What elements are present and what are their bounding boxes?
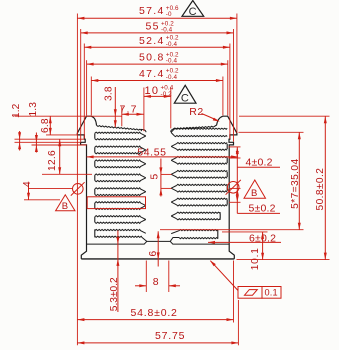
dimension 1.2 line (18, 131, 21, 151)
extension line left wing tip / overall (76, 14, 78, 346)
svg-text:5: 5 (150, 174, 161, 180)
svg-text:3.8: 3.8 (103, 86, 114, 101)
dimension 12.6 text (47, 150, 58, 171)
svg-text:6.8: 6.8 (40, 118, 51, 133)
datum triangle B right (244, 180, 266, 199)
dimension 5*7=35.04 line (298, 132, 301, 229)
base top surface with centre boss (87, 241, 230, 244)
extension line wing top right (239, 115, 330, 117)
svg-text:-0.4: -0.4 (166, 58, 178, 65)
svg-text:C: C (189, 6, 197, 18)
svg-text:54.55: 54.55 (137, 147, 166, 159)
left wing and left wall outer edge (77, 116, 91, 259)
extension line y142 (15, 141, 81, 143)
extension line channel right (170, 88, 172, 129)
right top thick fin (171, 128, 227, 136)
extension line left tab tip (80, 29, 82, 142)
dimension 52.4 line (84, 46, 230, 49)
extension line bottom right (237, 259, 330, 261)
dimension 6.8 line (49, 116, 52, 135)
dimension 10.1 line (261, 232, 264, 260)
svg-text:5.3±0.2: 5.3±0.2 (109, 277, 120, 311)
right fin 7 (171, 212, 220, 220)
right fin 2 (171, 143, 227, 151)
dimension 57.75 text (155, 330, 185, 342)
svg-text:57.4: 57.4 (139, 5, 165, 17)
left fin 3 (95, 160, 146, 168)
dimension 4±0.2 text (246, 156, 273, 168)
svg-text:1.2: 1.2 (11, 103, 22, 118)
datum triangle C middle (174, 85, 196, 104)
svg-text:C: C (181, 93, 189, 105)
dimension 57.4 +0.6/-0 text (139, 5, 179, 18)
dimension 8 line (135, 284, 180, 287)
dimension 4±0.2 shelf (237, 166, 280, 168)
dimension 1.3 line (35, 133, 38, 153)
right bottom fin (170, 230, 218, 242)
detail box on left fin (87, 197, 145, 209)
extension line y145 (32, 144, 87, 146)
dimension 6±0.2 line (208, 241, 281, 244)
svg-text:R2: R2 (189, 106, 204, 118)
dimension 7.7 line (122, 113, 144, 116)
dimension 54.55 text (137, 147, 166, 159)
svg-text:B: B (62, 201, 68, 212)
svg-text:1.3: 1.3 (28, 102, 39, 117)
extension line left wing top inner (90, 77, 92, 116)
svg-text:57.75: 57.75 (155, 330, 185, 342)
extension line right foot (233, 261, 235, 323)
dimension 6±0.2 text (249, 232, 276, 244)
dimension 5 line (159, 159, 162, 197)
dimension 7.7 text (120, 104, 138, 116)
dimension 50.8 line (87, 63, 228, 66)
leader to datum circle (29, 188, 73, 190)
dimension 6 text (148, 251, 159, 257)
dimension 6.8 text (40, 118, 51, 133)
svg-text:12.6: 12.6 (47, 150, 58, 171)
dimension 1.3 text (28, 102, 39, 117)
extension line 7.7 left (121, 107, 123, 127)
svg-text:B: B (251, 188, 257, 199)
dimension 5±0.2 text (249, 203, 276, 215)
dimension 50.8±0.2 line (324, 116, 327, 259)
extension line y139 (15, 138, 85, 140)
dimension 50.8 text (139, 51, 179, 64)
svg-text:0.1: 0.1 (265, 288, 278, 298)
left fin 4 (95, 174, 146, 182)
left fin 6 (95, 202, 146, 210)
dimension 5.3±0.2 text (109, 277, 120, 311)
datum triangle B left (56, 195, 75, 212)
left fin 7 (95, 216, 146, 224)
svg-text:54.8±0.2: 54.8±0.2 (131, 307, 178, 319)
left fin 5 (95, 188, 146, 196)
extension line left notch (83, 44, 85, 139)
svg-text:-0.4: -0.4 (166, 74, 178, 81)
svg-text:5*7=35.04: 5*7=35.04 (290, 158, 301, 208)
svg-text:52.4: 52.4 (139, 35, 165, 47)
dimension 10 +0.4/-0.2 line (144, 95, 171, 98)
extension line ledge (46, 134, 77, 136)
dimension 5 text (150, 174, 161, 180)
dimension 54.55 line (87, 155, 239, 158)
datum target circle right (226, 180, 241, 195)
left fin 2 (95, 146, 146, 154)
extension tick y174 (161, 173, 172, 175)
dimension 10.1 text (250, 247, 261, 270)
svg-text:55: 55 (146, 21, 160, 33)
extension line right wing top inner (222, 77, 224, 116)
svg-text:10: 10 (145, 85, 160, 97)
svg-text:-0.4: -0.4 (161, 27, 173, 34)
dimension 3.8 text (103, 86, 114, 101)
svg-text:6: 6 (148, 251, 159, 257)
extension line y200 (24, 199, 60, 201)
dimension 55 text (146, 20, 175, 33)
dimension 50.8±0.2 text (315, 168, 326, 211)
right fin 6 (171, 198, 227, 206)
flatness leader (210, 260, 238, 290)
extension line right wall (227, 60, 229, 115)
dimension 4 line (27, 183, 30, 200)
extension line wing top left (15, 115, 122, 117)
dimension 57.75 line (77, 341, 238, 344)
extension line right wing tip (236, 14, 238, 134)
dimension 1.2 text (11, 103, 22, 118)
svg-text:-0: -0 (166, 11, 172, 18)
dimension 12.6 line (58, 139, 61, 174)
extension tick y188 (161, 187, 172, 189)
right fin 5 (171, 184, 227, 192)
right wing inner fillet and top surface (171, 116, 223, 132)
datum target circle left (71, 182, 85, 195)
extension line right tab tip (233, 29, 235, 142)
extension line y174 (42, 173, 92, 175)
dimension 54.8±0.2 line (77, 318, 233, 321)
dimension 54.8±0.2 text (131, 307, 178, 319)
extension line y231.9 (222, 231, 268, 233)
extension line y229.7 (160, 229, 304, 231)
dimension 55 line (81, 31, 234, 34)
extension line boss left (145, 261, 147, 293)
svg-text:7.7: 7.7 (120, 104, 138, 116)
left wing inner fillet and top surface (91, 116, 146, 132)
left fin 1 (95, 132, 146, 140)
right wing and right wall outer edge (223, 116, 237, 259)
dimension 4 text (22, 181, 33, 187)
svg-text:-0.4: -0.4 (166, 41, 178, 48)
extension ticks right fins (229, 147, 241, 202)
extension line 57.75 right (237, 300, 239, 345)
svg-text:8: 8 (153, 276, 159, 288)
svg-text:10.1: 10.1 (250, 247, 261, 270)
datum triangle C top (182, 1, 204, 19)
dimension 4±0.2 line (236, 147, 239, 214)
dimension 6 line (157, 231, 160, 266)
dimension 5±0.2 shelf (237, 212, 280, 214)
dimension 5*7=35.04 text (290, 158, 301, 208)
dimension 8 text (153, 276, 159, 288)
dimension 5.3±0.2 line (116, 231, 119, 313)
svg-text:5±0.2: 5±0.2 (249, 203, 276, 215)
dimension 52.4 text (139, 35, 179, 48)
extension line boss right (168, 261, 170, 293)
dimension 3.8 line (114, 87, 117, 127)
extension line left wall (86, 60, 88, 115)
base bottom edge (81, 258, 234, 260)
svg-text:4±0.2: 4±0.2 (246, 156, 273, 168)
extension line right notch (229, 44, 231, 139)
R2 leader (202, 114, 220, 122)
right fin 3 (171, 156, 227, 164)
svg-text:50.8±0.2: 50.8±0.2 (315, 168, 326, 211)
extension line channel left (143, 88, 145, 132)
svg-text:-0.2: -0.2 (161, 91, 173, 98)
extension line wing bottom right (239, 131, 304, 133)
dimension 47.4 text (139, 68, 179, 81)
right fin 4 (171, 170, 227, 178)
dimension 57.4 +0.6/-0 line (77, 17, 237, 20)
dimension 47.4 line (91, 79, 223, 82)
label R2 (189, 106, 204, 118)
svg-text:47.4: 47.4 (139, 68, 165, 80)
left bottom fin (95, 229, 147, 241)
svg-text:4: 4 (22, 181, 33, 187)
flatness frame (238, 287, 281, 299)
svg-text:50.8: 50.8 (139, 52, 165, 64)
dimension 10 +0.4/-0.2 text (145, 85, 174, 98)
